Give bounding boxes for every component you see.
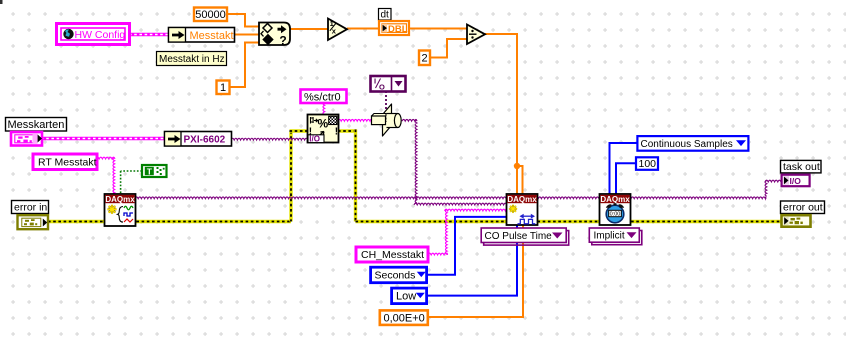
wire Seconds ring to CO node units bbox=[426, 217, 507, 275]
wire format node to funnel (magenta wavy) bbox=[338, 119, 372, 121]
wire boolean constant to DAQmx create node (green dotted) bbox=[121, 171, 142, 195]
svg-text:task out: task out bbox=[783, 161, 820, 173]
wire error detour up left bbox=[289, 131, 292, 222]
ring constant Implicit bbox=[589, 228, 642, 245]
funnel conversion node bbox=[372, 104, 402, 136]
svg-text:error in: error in bbox=[14, 201, 47, 213]
svg-text:DAQmx: DAQmx bbox=[600, 195, 630, 204]
wire reciprocal to DBL conversion bbox=[347, 28, 379, 30]
junction dot divide output bbox=[514, 163, 520, 169]
function reciprocal 1/x bbox=[328, 19, 347, 41]
wire error detour down right bbox=[354, 130, 357, 222]
free label Messtakt in Hz bbox=[157, 52, 227, 66]
terminal error in bbox=[18, 215, 49, 229]
svg-text:Messkarten: Messkarten bbox=[8, 119, 65, 131]
wire error detour top into format node bbox=[290, 129, 309, 132]
variable node Messtakt bbox=[169, 28, 235, 43]
wire divide output down to CO node high/low time bbox=[485, 34, 523, 195]
wire Low ring to CO node idle state bbox=[426, 225, 517, 296]
ring constant Low bbox=[392, 288, 427, 304]
wire %s/ctr0 to format node (magenta wavy vertical) bbox=[323, 102, 325, 115]
wire error main run right (to error out) bbox=[356, 220, 783, 223]
svg-text:Seconds: Seconds bbox=[375, 270, 416, 282]
corner speck bbox=[0, 0, 3, 4]
svg-text:2: 2 bbox=[421, 52, 427, 64]
numeric constant 0,00E+0 bbox=[380, 310, 428, 325]
function Select bbox=[259, 23, 290, 48]
label Messkarten bbox=[6, 118, 67, 132]
wire error main run left (error in to detour) bbox=[46, 220, 291, 223]
svg-text:?: ? bbox=[279, 34, 286, 48]
function divide bbox=[467, 25, 485, 45]
wire 100 to timing node bbox=[616, 163, 636, 194]
wire select to reciprocal bbox=[289, 28, 328, 30]
ring constant CO Pulse Time bbox=[481, 228, 569, 245]
svg-text:DBL: DBL bbox=[388, 24, 408, 35]
control terminal RT Messtakt bbox=[33, 154, 97, 170]
string constant %s/ctr0 bbox=[301, 90, 347, 104]
DAQmx create task node bbox=[105, 194, 136, 226]
svg-text:I/O: I/O bbox=[790, 176, 802, 186]
wire HW Config to Messtakt variable (magenta dashed) bbox=[129, 33, 169, 37]
wire I/O ring to funnel (purple dotted) bbox=[385, 91, 387, 110]
ring constant Seconds bbox=[371, 267, 427, 283]
label error out bbox=[781, 201, 825, 214]
svg-text:Continuous Samples: Continuous Samples bbox=[641, 139, 733, 150]
svg-text:%s/ctr0: %s/ctr0 bbox=[304, 91, 341, 103]
conversion DBL bbox=[379, 21, 409, 35]
svg-text:HW Config: HW Config bbox=[75, 29, 126, 41]
wire 2 to divide bbox=[428, 39, 467, 58]
svg-text:Low: Low bbox=[396, 291, 416, 303]
wire error detour top out of format node bbox=[338, 129, 357, 132]
terminal Messkarten (array of device names) bbox=[11, 132, 42, 146]
wire PXI-6602 device name to format node bbox=[231, 138, 308, 140]
svg-text:100: 100 bbox=[639, 158, 657, 170]
wire DBL to divide bbox=[409, 28, 467, 30]
svg-text:DAQmx: DAQmx bbox=[105, 195, 135, 204]
svg-text:I: I bbox=[374, 77, 376, 86]
svg-text:PXI-6602: PXI-6602 bbox=[184, 134, 226, 145]
wire 0,00E+0 to CO node initial delay bbox=[428, 225, 523, 317]
svg-text:0,00E+0: 0,00E+0 bbox=[384, 312, 425, 324]
svg-text:1: 1 bbox=[220, 82, 226, 94]
WIRES LAYER bbox=[41, 14, 782, 317]
svg-text:DAQmx: DAQmx bbox=[507, 195, 537, 204]
constant 50000 bbox=[194, 8, 227, 22]
svg-text:Messtakt in Hz: Messtakt in Hz bbox=[159, 54, 225, 65]
svg-text:!: ! bbox=[335, 127, 338, 138]
svg-text:I/O: I/O bbox=[309, 134, 320, 143]
variable node PXI-6602 bbox=[165, 132, 232, 147]
wire Continuous Samples to timing node bbox=[610, 143, 639, 195]
global variable HW Config bbox=[57, 24, 130, 45]
wire CH_Messtakt to DAQmx CO node (magenta wavy) bbox=[428, 209, 507, 255]
I/O ring constant bbox=[371, 76, 406, 92]
label task out bbox=[781, 160, 822, 173]
svg-text:Messtakt: Messtakt bbox=[190, 30, 234, 42]
label error in bbox=[12, 201, 49, 214]
DAQmx create channel CO node bbox=[507, 194, 538, 225]
terminal error out bbox=[782, 215, 811, 227]
constant 2 bbox=[419, 51, 430, 66]
DAQmx timing node bbox=[600, 194, 631, 225]
terminal task out bbox=[782, 175, 810, 187]
numeric constant 100 bbox=[636, 157, 658, 170]
wire funnel output counter name to DAQmx CO node bbox=[402, 119, 507, 204]
svg-text:CO Pulse Time: CO Pulse Time bbox=[485, 231, 553, 242]
wire DAQmx task purple run node1 to task out bbox=[135, 180, 782, 199]
free label dt bbox=[379, 9, 392, 21]
svg-text:CH_Messtakt: CH_Messtakt bbox=[361, 249, 424, 261]
svg-text:dt: dt bbox=[381, 10, 390, 21]
wire 50000 to select bbox=[226, 14, 259, 27]
wire RT Messtakt to DAQmx create node bbox=[96, 157, 115, 195]
wire Messkarten to PXI-6602 (magenta dashed) bbox=[41, 137, 165, 141]
format into string node bbox=[308, 115, 339, 144]
svg-text:O: O bbox=[379, 83, 385, 92]
svg-text:RT Messtakt: RT Messtakt bbox=[38, 157, 97, 169]
svg-text:%: % bbox=[318, 117, 329, 131]
svg-text:0:00: 0:00 bbox=[610, 212, 621, 218]
boolean constant TRUE bbox=[142, 165, 167, 177]
wire Messtakt variable to select bbox=[233, 34, 259, 36]
svg-text:T: T bbox=[147, 166, 153, 176]
wire 1 to select bbox=[229, 43, 259, 88]
svg-text:50000: 50000 bbox=[195, 9, 226, 21]
svg-text:error out: error out bbox=[783, 202, 823, 214]
constant 1 bbox=[217, 81, 230, 95]
string constant CH_Messtakt bbox=[356, 247, 428, 262]
ring constant Continuous Samples bbox=[637, 136, 748, 151]
svg-text:Implicit: Implicit bbox=[594, 231, 625, 242]
